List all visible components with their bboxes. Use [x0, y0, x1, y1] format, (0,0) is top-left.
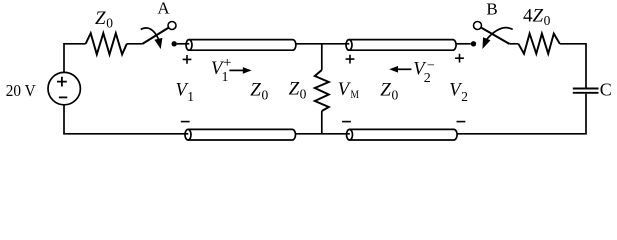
svg-text:20 V: 20 V — [6, 81, 36, 100]
label V1+ incident wave with arrow — [211, 55, 231, 85]
label 4Z0 — [523, 6, 551, 29]
wire TL1 to TL2 with junction — [296, 43, 349, 45]
wire switch B pivot to resistor 4Z0 — [509, 43, 518, 45]
switch A — [141, 22, 176, 49]
label V2 — [449, 81, 468, 104]
voltage source Vs 20V — [48, 72, 80, 104]
wire TL2 to switch B dot — [456, 43, 471, 45]
transmission line TL2 bottom conductor — [347, 129, 458, 140]
switch B — [474, 22, 513, 48]
wire junction down to middle resistor — [321, 44, 323, 70]
label VM — [338, 80, 360, 101]
svg-text:0: 0 — [106, 15, 113, 30]
label V2- reflected wave with arrow — [389, 66, 398, 73]
svg-text:2: 2 — [461, 89, 468, 104]
svg-text:2: 2 — [424, 71, 431, 86]
svg-text:M: M — [351, 87, 360, 101]
wire bottom left TL1 to source — [64, 105, 188, 134]
label minus VM — [342, 121, 351, 123]
wire 4Z0 to top right corner and down — [560, 44, 586, 88]
label plus V1 — [183, 55, 192, 64]
wire capacitor down to bottom right corner — [457, 94, 586, 134]
svg-text:Z: Z — [380, 80, 391, 101]
transmission line TL1 top conductor — [186, 40, 296, 51]
svg-text:0: 0 — [544, 13, 551, 28]
label Z0 (middle resistor) — [289, 79, 307, 102]
transmission line TL1 bottom conductor — [185, 129, 296, 140]
label 20 V — [6, 81, 36, 100]
svg-text:1: 1 — [187, 89, 194, 104]
label Z0 (series resistor) — [95, 8, 113, 31]
label minus V2 — [457, 121, 466, 123]
svg-text:+: + — [223, 55, 231, 71]
label plus VM — [346, 55, 355, 64]
svg-text:A: A — [157, 0, 170, 18]
svg-text:1: 1 — [222, 70, 229, 85]
capacitor C — [573, 89, 599, 93]
svg-text:0: 0 — [262, 88, 269, 103]
resistor R2 4Z0 — [518, 34, 559, 54]
node dot switch A contact — [172, 41, 177, 46]
wire resistor to switch A pivot — [127, 43, 143, 45]
svg-text:Z: Z — [289, 79, 300, 100]
label plus V2 — [455, 54, 464, 63]
resistor Rm Z0 (middle shunt) — [315, 70, 329, 111]
svg-text:Z: Z — [95, 8, 106, 29]
svg-text:B: B — [486, 0, 497, 19]
transmission line TL2 top conductor — [346, 40, 456, 51]
svg-text:C: C — [600, 80, 612, 100]
label C — [600, 80, 612, 100]
svg-text:4Z: 4Z — [523, 6, 544, 27]
wire dot to TL1 input — [177, 43, 189, 45]
label B — [486, 0, 497, 19]
svg-text:0: 0 — [300, 87, 307, 102]
label minus V1 — [181, 121, 190, 123]
label V1 — [176, 81, 195, 104]
wire TL1 bottom to TL2 bottom — [295, 133, 349, 135]
svg-text:0: 0 — [392, 88, 399, 103]
node dot switch B contact — [471, 41, 476, 46]
resistor Z1 Z0 (series source resistor) — [86, 33, 127, 54]
wire source top to resistor Z0 — [64, 44, 86, 73]
label Z0 (TL2) — [380, 80, 398, 103]
label Z0 (TL1) — [250, 80, 268, 103]
wire middle resistor to bottom junction — [321, 111, 323, 134]
label A — [157, 0, 170, 18]
svg-text:Z: Z — [250, 80, 261, 101]
